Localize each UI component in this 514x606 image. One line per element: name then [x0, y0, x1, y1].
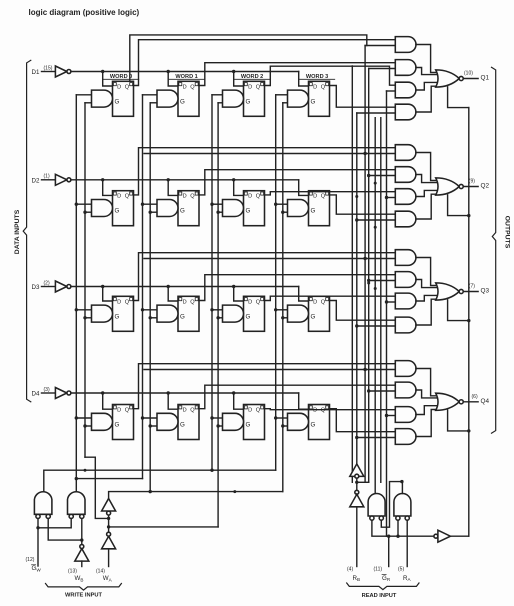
latch U41 label G: [115, 422, 120, 429]
svg-text:(2): (2): [44, 280, 50, 286]
wire Q word1 bit4 route: [199, 385, 395, 409]
svg-text:G: G: [115, 422, 120, 429]
inverter buffer D4: [55, 388, 67, 399]
latch U12 Q pin square: [195, 83, 198, 86]
latch U14 (word 3 bit 1) body: [309, 81, 330, 116]
latch U11 label G: [115, 98, 120, 105]
wire and1 out to nor Q2: [416, 153, 437, 181]
title: logic diagram (positive logic): [29, 8, 140, 17]
and gate G-enable row3 col1: [157, 305, 178, 322]
junction D1 word0 tap: [101, 70, 114, 86]
svg-text:(3): (3): [44, 387, 50, 393]
svg-text:D: D: [183, 408, 187, 414]
svg-text:(12): (12): [26, 557, 35, 563]
pin number (11): [374, 566, 383, 572]
svg-text:G: G: [246, 313, 251, 320]
latch U31 Q pin square: [130, 298, 133, 301]
wire Q word2 bit3 route: [265, 296, 396, 300]
svg-text:(11): (11): [374, 566, 383, 572]
inverter RB upper triangle: [350, 464, 364, 477]
svg-text:G: G: [311, 422, 316, 429]
junction D1 word2 tap: [232, 70, 245, 86]
junction D4 word0 tap: [101, 391, 114, 409]
label WORD 0: [110, 74, 132, 80]
latch U42 label Q: [190, 408, 195, 414]
svg-text:D: D: [248, 408, 252, 414]
node D2 input label: [32, 177, 40, 184]
latch U33 (word 2 bit 3) body: [244, 296, 265, 331]
latch U23 (word 2 bit 2) body: [244, 191, 265, 226]
wire and2 out to nor Q2: [416, 175, 438, 183]
wire Q word2 bit4 route: [265, 409, 396, 410]
latch U34 label D: [313, 299, 317, 305]
inverter WB triangle: [75, 549, 89, 562]
and gate output group Q3 word1: [395, 272, 416, 288]
latch U24 label D: [313, 194, 317, 200]
latch U31 label G: [115, 313, 120, 320]
latch U14 label D: [313, 84, 317, 90]
wire WA inverted node: [107, 515, 110, 532]
svg-text:G: G: [115, 313, 120, 320]
latch U31 label D: [117, 299, 121, 305]
svg-text:(4): (4): [347, 566, 353, 572]
svg-text:D: D: [117, 194, 121, 200]
latch U21 (word 0 bit 2) body: [113, 191, 134, 226]
latch U13 D pin square: [244, 83, 247, 86]
wire select stub col2 row1 lower: [216, 211, 222, 214]
wire Q word0 bit2 route: [134, 148, 396, 195]
inverter WA lower triangle: [102, 536, 116, 549]
pin number (14): [96, 568, 105, 574]
and gate output group Q1 word1: [395, 60, 416, 76]
wire Q word2 bit2 route: [265, 192, 396, 195]
svg-text:(15): (15): [44, 65, 53, 71]
label OUTPUTS: [504, 216, 511, 249]
latch U41 (word 0 bit 4) body: [113, 405, 134, 440]
latch U14 D pin square: [309, 83, 312, 86]
wire select stub col3 row0 lower: [283, 102, 288, 104]
wire and2 out to nor Q3: [416, 280, 438, 288]
svg-text:Q: Q: [321, 194, 326, 200]
svg-text:Q: Q: [125, 299, 130, 305]
latch U21 D pin square: [113, 192, 116, 195]
latch U33 label D: [248, 299, 252, 305]
and gate output group Q1 word3: [395, 104, 416, 120]
wire select stub col0 row3 lower: [83, 424, 91, 427]
wire D2 end tap word3: [299, 180, 310, 196]
latch U23 Q pin square: [261, 192, 264, 195]
wire RA pin: [406, 520, 408, 566]
wire read stub group4 and2: [367, 389, 395, 392]
svg-text:(5): (5): [398, 566, 404, 572]
latch U12 D pin square: [179, 83, 182, 86]
latch U32 Q pin square: [195, 298, 198, 301]
latch U32 label D: [183, 299, 187, 305]
and gate output group Q4 word1: [395, 382, 416, 398]
latch U33 label G: [246, 313, 251, 320]
latch U34 label Q: [321, 299, 326, 305]
wire and1 out to nor Q3: [416, 258, 437, 286]
svg-text:D1: D1: [32, 69, 40, 76]
outputs brace: [492, 67, 496, 433]
svg-text:(9): (9): [469, 179, 475, 185]
svg-text:D: D: [313, 299, 317, 305]
wire read vertical e: [374, 118, 376, 494]
latch U13 Q pin square: [261, 83, 264, 86]
wire RBbar branch: [357, 481, 369, 483]
and gate G-enable row1 col3: [288, 90, 309, 107]
latch U21 label G: [115, 208, 120, 215]
pin number (6): [472, 394, 478, 400]
junction D2 word0 tap: [101, 178, 114, 195]
wire read stub group4 and4: [355, 436, 395, 439]
junction blob: [367, 174, 370, 177]
svg-text:(14): (14): [96, 568, 105, 574]
latch U31 D pin square: [113, 298, 116, 301]
node Q3 label: [481, 288, 490, 295]
latch U13 label G: [246, 98, 251, 105]
latch U33 label Q: [256, 299, 261, 305]
svg-text:WRITE INPUT: WRITE INPUT: [65, 592, 102, 598]
wire word0 Q top auxiliary route: [130, 35, 367, 81]
wire and4 out to nor Q4: [416, 410, 436, 437]
latch U11 D pin square: [113, 83, 116, 86]
wire read stub group4 and1: [144, 368, 395, 371]
latch U44 D pin square: [309, 406, 312, 409]
latch U34 Q pin square: [326, 298, 329, 301]
wire D1 data line: [71, 71, 299, 73]
pin number (1) for D2: [44, 174, 50, 180]
latch U24 Q pin square: [326, 192, 329, 195]
pin number (2) for D3: [44, 280, 50, 286]
svg-text:(6): (6): [472, 394, 478, 400]
inverter RB upper input bubble: [355, 474, 359, 478]
wire and3 out to nor Q2: [416, 190, 438, 196]
svg-text:D: D: [117, 408, 121, 414]
wire read-disable tap Q1: [448, 87, 469, 108]
svg-text:Q: Q: [190, 84, 195, 90]
wire D4 data line: [71, 392, 299, 394]
latch U43 label G: [246, 422, 251, 429]
wire select stub col2 row3 upper: [210, 416, 222, 419]
svg-text:G: G: [180, 422, 185, 429]
write input brace: [46, 584, 122, 591]
wire select stub col2 row2 lower: [216, 316, 222, 319]
label WORD 1: [175, 74, 197, 80]
latch U24 (word 3 bit 2) body: [309, 191, 330, 226]
svg-text:DATA INPUTS: DATA INPUTS: [14, 209, 21, 254]
nor U4 output bubble: [459, 400, 463, 404]
nor gate U4 output: [436, 393, 460, 410]
wire Q word3 bit4 route: [330, 409, 396, 432]
and gate G-enable row2 col0: [92, 200, 113, 217]
wire Q word3 bit2 route: [330, 195, 396, 214]
wire select stub col0 row0 lower: [85, 102, 92, 104]
label WORD 3: [306, 74, 328, 80]
and gate G-enable row4 col2: [223, 413, 244, 430]
latch U32 label G: [180, 313, 185, 320]
svg-text:Q: Q: [256, 299, 261, 305]
wire select stub col0 row1 upper: [75, 203, 92, 206]
junction blob: [367, 282, 370, 285]
node GW label: [32, 565, 42, 573]
wire select stub col2 row1 upper: [210, 203, 222, 206]
svg-text:Q: Q: [321, 299, 326, 305]
wire select stub col1 row2 lower: [149, 316, 158, 319]
wire Q3 output: [463, 291, 478, 293]
and gate W1 body: [34, 492, 52, 515]
and gate output group Q2 word1: [395, 167, 416, 183]
wire Q word1 bit1 route: [199, 63, 395, 86]
wire select stub col0 row1 lower: [83, 211, 91, 214]
latch U44 (word 3 bit 4) body: [309, 405, 330, 440]
wire select stub col2 row0 upper: [212, 94, 223, 96]
svg-text:G: G: [115, 98, 120, 105]
svg-text:G: G: [246, 422, 251, 429]
node WA label: [103, 575, 113, 582]
wire read vertical a: [351, 66, 353, 482]
and gate G-enable row1 col0: [92, 90, 113, 107]
label WORD 2: [241, 74, 263, 80]
latch U31 label Q: [125, 299, 130, 305]
wire and3 out to nor Q4: [416, 406, 438, 415]
and gate output group Q2 word2: [395, 189, 416, 205]
pin number (12): [26, 557, 35, 563]
and gate output group Q1 word2: [395, 82, 416, 98]
word 3 label underline: [300, 78, 335, 80]
wire read-select vertical x386: [386, 91, 388, 536]
node Q4 label: [481, 398, 490, 405]
latch U32 D pin square: [179, 298, 182, 301]
pin number (10): [464, 71, 473, 77]
svg-text:Q: Q: [256, 408, 261, 414]
latch U34 label G: [311, 313, 316, 320]
wire select stub col0 row2 lower: [83, 316, 91, 319]
latch U12 label G: [180, 98, 185, 105]
latch U43 (word 2 bit 4) body: [244, 405, 265, 440]
latch U41 label Q: [125, 408, 130, 414]
wire Q word3 bit3 route: [330, 301, 396, 321]
svg-text:Q: Q: [321, 84, 326, 90]
junction D3 word1 tap: [167, 285, 180, 301]
latch U23 label D: [248, 194, 252, 200]
wire read stub group4 and3: [385, 414, 396, 417]
svg-text:G: G: [115, 208, 120, 215]
wire read stub group2 and4: [355, 218, 395, 221]
wire read-disable tap Q2: [448, 195, 471, 218]
junction D3 word0 tap: [101, 285, 114, 301]
svg-text:Q: Q: [125, 408, 130, 414]
wire WB inverted up: [80, 519, 83, 545]
wire D3 pin to inverter: [42, 286, 56, 288]
wire D1 pin to inverter: [42, 71, 56, 73]
wire read stub group1 and4: [357, 112, 396, 114]
svg-text:logic diagram (positive logic): logic diagram (positive logic): [29, 8, 140, 17]
wire and2 out to nor Q4: [416, 390, 438, 398]
wire Q4 output: [463, 401, 478, 403]
and gate G-enable row4 col1: [157, 413, 178, 430]
and gate output group Q3 word3: [395, 317, 416, 333]
wire RB node: [355, 478, 358, 490]
and gate G-enable row2 col2: [223, 200, 244, 217]
latch U44 label G: [311, 422, 316, 429]
node GR label: [382, 574, 391, 582]
node RB label: [353, 575, 361, 582]
latch U42 label G: [180, 422, 185, 429]
latch U14 Q pin square: [326, 83, 329, 86]
wire read stub group3 and3: [385, 300, 396, 303]
and gate RA2 bubbles: [396, 516, 410, 520]
svg-text:Q: Q: [190, 299, 195, 305]
and gate output group Q4 word2: [395, 407, 416, 423]
svg-text:D: D: [183, 84, 187, 90]
latch U23 label Q: [256, 194, 261, 200]
wire select stub col1 row1 lower: [149, 211, 158, 214]
inverter RB lower bubble: [355, 490, 359, 494]
latch U43 label Q: [256, 408, 261, 414]
latch U43 label D: [248, 408, 252, 414]
word 1 label underline: [169, 78, 204, 80]
wire select stub col1 row0 lower: [150, 102, 157, 104]
latch U22 label G: [180, 208, 185, 215]
svg-text:G: G: [311, 98, 316, 105]
wire read stub group2 and1: [144, 152, 395, 155]
and gate G-enable row3 col3: [288, 305, 309, 322]
latch U24 label G: [311, 208, 316, 215]
wire Q word0 bit1 route: [134, 40, 396, 86]
svg-text:D: D: [117, 84, 121, 90]
and gate output group Q4 word0: [395, 361, 416, 377]
wire read stub group2 and2: [367, 174, 395, 177]
label DATA INPUTS: [14, 209, 21, 254]
svg-text:G: G: [311, 313, 316, 320]
svg-text:(10): (10): [464, 71, 473, 77]
wire select stub col3 row1 upper: [274, 203, 288, 206]
wire read vertical f: [380, 118, 382, 483]
wire GR line: [372, 520, 434, 538]
latch U14 label Q: [321, 84, 326, 90]
svg-text:Q: Q: [190, 194, 195, 200]
and gate RA1 body: [368, 494, 385, 517]
wire WB pin: [81, 561, 83, 566]
wire read-select vertical x357: [356, 113, 358, 464]
svg-text:READ INPUT: READ INPUT: [362, 593, 397, 599]
wire write-select B column 2 vertical: [217, 103, 219, 527]
latch U21 label Q: [125, 194, 130, 200]
wire select stub col3 row3 lower: [281, 424, 287, 427]
wire select stub col1 row2 upper: [141, 308, 157, 311]
wire select stub col2 row2 upper: [210, 308, 222, 311]
latch U12 label Q: [190, 84, 195, 90]
svg-text:Q: Q: [256, 194, 261, 200]
latch U24 label Q: [321, 194, 326, 200]
and gate RA1 bubbles: [370, 516, 384, 520]
svg-text:D: D: [313, 408, 317, 414]
inverter D4 output bubble: [67, 391, 71, 395]
node D4 input label: [32, 391, 40, 398]
node D3 input label: [32, 284, 40, 291]
pin number (3) for D4: [44, 387, 50, 393]
wire GR pin: [388, 536, 390, 566]
data inputs brace: [23, 60, 31, 402]
wire read-disable vertical: [468, 108, 470, 537]
junction blob: [355, 195, 358, 198]
wire WAbar branch lower: [109, 526, 219, 528]
svg-text:OUTPUTS: OUTPUTS: [504, 216, 511, 249]
wire D3 data line: [71, 286, 299, 288]
wire W1 output distribution: [44, 469, 276, 491]
wire D2 data line: [71, 179, 299, 181]
latch U41 label D: [117, 408, 121, 414]
and gate W1 input bubbles: [36, 514, 50, 518]
inverter D2 output bubble: [67, 178, 71, 182]
wire write-select A column 2 vertical: [211, 95, 213, 470]
svg-text:D: D: [248, 194, 252, 200]
wire and4 out to nor Q2: [416, 194, 436, 219]
and gate output group Q1 word0: [395, 37, 416, 53]
wire write-select B column 1 vertical: [149, 103, 151, 492]
pin number (13): [68, 568, 77, 574]
wire write-select A column 1 vertical: [142, 95, 144, 479]
junction D2 word2 tap: [232, 178, 245, 195]
node Q1 label: [481, 75, 490, 82]
svg-text:D: D: [313, 194, 317, 200]
wire GW input: [36, 519, 39, 567]
svg-text:D: D: [248, 299, 252, 305]
latch U22 Q pin square: [195, 192, 198, 195]
latch U41 D pin square: [113, 406, 116, 409]
wire D1 end tap word3: [299, 72, 310, 87]
wire select stub col0 row0 upper: [76, 94, 91, 96]
wire read stub group3 and1: [144, 257, 395, 260]
wire select stub col1 row1 upper: [141, 203, 157, 206]
wire WB branch to W1: [48, 519, 82, 541]
svg-text:G: G: [180, 208, 185, 215]
wire and1 out to nor Q1: [416, 45, 437, 73]
svg-text:D3: D3: [32, 284, 40, 291]
read input brace: [347, 583, 419, 590]
svg-text:D: D: [313, 84, 317, 90]
wire gateB out jog: [400, 480, 403, 494]
and gate RA2 body: [394, 494, 411, 517]
wire select stub col2 row3 lower: [216, 424, 222, 427]
and gate G-enable row2 col1: [157, 200, 178, 217]
junction D4 word2 tap: [232, 391, 245, 409]
wire read-select vertical x365: [364, 46, 366, 483]
and gate output group Q3 word2: [395, 293, 416, 309]
inverter RB lower triangle: [350, 494, 364, 507]
nor gate U2 output: [436, 178, 460, 195]
and gate G-enable row3 col0: [92, 305, 113, 322]
and gate G-enable row1 col2: [223, 90, 244, 107]
latch U11 (word 0 bit 1) body: [113, 81, 134, 116]
pin number (7): [469, 284, 475, 290]
word 2 label underline: [235, 78, 270, 80]
nor U3 output bubble: [459, 289, 463, 293]
svg-text:Q: Q: [125, 194, 130, 200]
wire RB pin: [356, 507, 358, 567]
latch U44 label Q: [321, 408, 326, 414]
wire GW branch to W2: [38, 519, 71, 528]
and gate W2 body: [68, 492, 86, 515]
wire write-select B column 0 vertical: [84, 103, 86, 457]
inverter buffer D2: [55, 174, 67, 185]
and gate G-enable row3 col2: [223, 305, 244, 322]
inverter buffer D1: [55, 66, 67, 77]
wire read stub group2 and3: [385, 196, 396, 199]
nor U1 output bubble: [459, 76, 463, 80]
svg-text:Q3: Q3: [481, 288, 490, 295]
